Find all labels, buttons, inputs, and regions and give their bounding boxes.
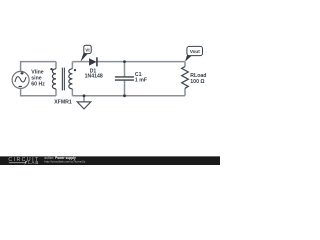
svg-text:LAB: LAB bbox=[28, 160, 39, 165]
svg-text:60 Hz: 60 Hz bbox=[31, 82, 45, 88]
svg-text:sine: sine bbox=[31, 76, 41, 82]
svg-text:RLoad: RLoad bbox=[190, 73, 206, 79]
svg-text:Vout: Vout bbox=[190, 49, 200, 54]
svg-text:1 mF: 1 mF bbox=[135, 77, 147, 83]
svg-text:100 Ω: 100 Ω bbox=[190, 79, 204, 85]
svg-text:1N4148: 1N4148 bbox=[85, 73, 103, 79]
svg-text:http://circuitlab.com/c/7kxmn2: http://circuitlab.com/c/7kxmn2y bbox=[44, 159, 86, 163]
svg-text:Vt: Vt bbox=[85, 47, 90, 52]
svg-text:XFMR1: XFMR1 bbox=[54, 100, 72, 106]
